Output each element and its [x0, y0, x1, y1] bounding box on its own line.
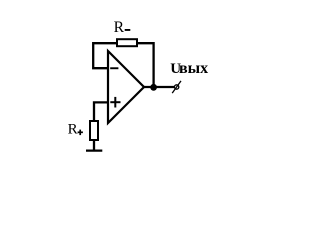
- resistor R+ (grounding resistor body): [90, 121, 98, 140]
- op-amp U1 triangle: [108, 51, 144, 123]
- junction node dot at output: [150, 84, 157, 91]
- wire: op-amp output to terminal: [143, 86, 174, 88]
- ground symbol: [86, 149, 102, 151]
- wire: non-inverting input stub down to R+: [94, 102, 108, 121]
- op-amp non-inverting input plus mark: [110, 97, 120, 108]
- label R+ value text: [68, 122, 83, 138]
- wire: R+ bottom lead to ground: [93, 140, 95, 151]
- wire: feedback top rail from R- to right leg down to output node: [137, 43, 154, 86]
- output terminal (circle with slash): [172, 81, 181, 93]
- svg-text:R: R: [68, 122, 78, 138]
- label R- value text: [114, 19, 131, 36]
- svg-text:Uвых: Uвых: [170, 60, 208, 77]
- wire: feedback left leg from inverting input up to top rail: [93, 43, 117, 68]
- resistor R- (feedback resistor body): [117, 39, 137, 46]
- op-amp inverting input minus mark: [110, 67, 118, 69]
- svg-text:R: R: [114, 19, 125, 36]
